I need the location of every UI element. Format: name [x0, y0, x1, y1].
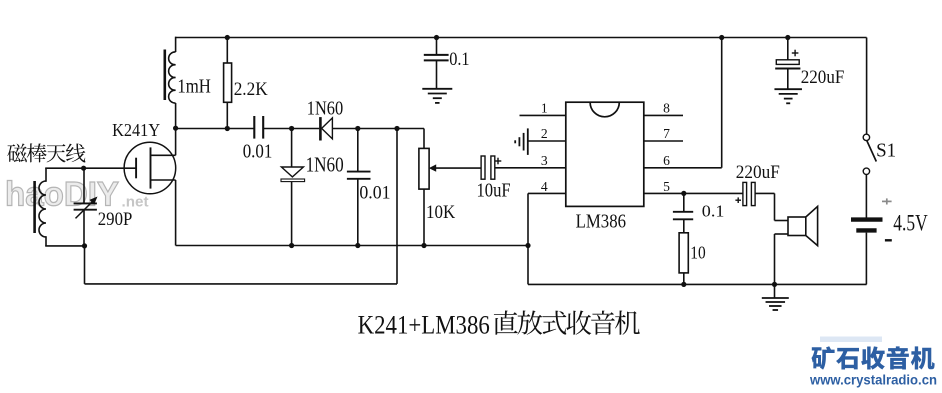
svg-text:10: 10 — [690, 243, 706, 263]
ground speaker — [774, 284, 776, 297]
svg-text:K241Y: K241Y — [112, 120, 160, 140]
svg-text:10uF: 10uF — [477, 180, 511, 202]
minus battery — [885, 239, 892, 241]
svg-text:5: 5 — [663, 179, 670, 194]
svg-text:290P: 290P — [98, 209, 133, 230]
pin 7 lead — [644, 140, 683, 142]
pin 6 lead — [644, 167, 722, 169]
wire AVC return loop — [84, 246, 86, 284]
svg-text:10K: 10K — [426, 202, 455, 223]
wire signal rail (drain node line) — [176, 128, 255, 130]
resistor R 2.2K — [226, 38, 228, 64]
diode D 1N60 series — [319, 117, 322, 140]
capacitor 220uF output — [743, 182, 747, 205]
antenna core bar — [33, 181, 36, 233]
svg-text:0.01: 0.01 — [359, 183, 390, 204]
svg-text:0.1: 0.1 — [449, 50, 469, 70]
node pin5 — [681, 191, 686, 196]
svg-text:7: 7 — [663, 126, 670, 141]
svg-text:2: 2 — [541, 126, 548, 141]
node top rail / 0.1 decoupling — [434, 35, 439, 40]
node detector / shunt diode — [289, 126, 294, 131]
svg-text:2.2K: 2.2K — [234, 79, 268, 100]
pin 4 lead — [528, 192, 566, 194]
wire antenna top to gate — [45, 168, 47, 182]
switch S1 — [866, 38, 868, 135]
ground below 0.1 — [422, 88, 452, 90]
svg-text:www.crystalradio.cn: www.crystalradio.cn — [809, 372, 937, 387]
node 2.2K bottom — [225, 126, 230, 131]
speaker — [788, 217, 806, 236]
pin 5 lead — [644, 192, 743, 194]
pin 8 lead — [644, 114, 683, 116]
capacitor 0.01 shunt — [357, 129, 359, 172]
svg-text:220uF: 220uF — [736, 162, 780, 183]
node top rail / 220uF filter — [785, 35, 790, 40]
svg-text:8: 8 — [663, 101, 670, 116]
plus battery — [882, 200, 892, 202]
antenna coil — [39, 181, 46, 237]
svg-text:4: 4 — [541, 179, 548, 194]
svg-text:1mH: 1mH — [177, 75, 211, 97]
capacitor 0.1 zobel — [683, 193, 685, 211]
node speaker ground — [772, 282, 777, 287]
transistor Q K241Y FET — [124, 142, 176, 194]
svg-text:K241+LM386: K241+LM386 — [358, 310, 490, 340]
node top rail / 2.2K — [225, 35, 230, 40]
svg-text:1N60: 1N60 — [307, 98, 343, 120]
node top rail / pin6 riser — [719, 35, 724, 40]
svg-text:3: 3 — [541, 153, 548, 168]
logo 矿石收音机 — [811, 346, 934, 369]
capacitor 220uF filter — [787, 38, 789, 60]
wire pin3 lead — [495, 167, 566, 169]
wire top power rail — [175, 37, 866, 39]
logo halo artifact — [820, 337, 882, 343]
variable capacitor 290P — [83, 168, 85, 203]
plus 10uF — [495, 160, 502, 162]
svg-text:1: 1 — [541, 101, 548, 116]
wire antenna bottom — [45, 236, 47, 246]
potentiometer 10K — [423, 129, 425, 149]
wire speaker to ground — [775, 233, 789, 235]
wire switch to battery — [865, 175, 867, 218]
node pot bottom — [421, 243, 426, 248]
wire cap to speaker — [755, 192, 774, 194]
svg-text:1N60: 1N60 — [306, 155, 344, 177]
svg-text:220uF: 220uF — [801, 67, 845, 88]
10K wiper arrow — [429, 164, 436, 171]
wire pin6 riser to rail — [721, 38, 723, 168]
svg-text:0.1: 0.1 — [702, 202, 725, 221]
inductor L 1mH — [175, 37, 177, 52]
ground below 220uF filter — [774, 88, 802, 90]
290P arrow — [76, 202, 93, 219]
node antenna bottom — [82, 243, 87, 248]
node shunt diode bottom — [289, 243, 294, 248]
svg-text:0.01: 0.01 — [243, 141, 273, 163]
wire ground bus left — [176, 245, 528, 247]
plus 220uF filter — [792, 52, 799, 54]
node shunt cap bottom — [355, 243, 360, 248]
ground pin2 (rotated) — [527, 128, 529, 155]
node gate / 290P — [81, 166, 86, 171]
svg-text:4.5V: 4.5V — [893, 211, 928, 236]
cjk 磁棒天线 — [7, 143, 85, 162]
resistor 10 zobel — [679, 233, 688, 273]
inductor core bar — [164, 50, 167, 101]
node AVC return — [394, 126, 399, 131]
capacitor 0.1 decoupling top — [436, 38, 438, 55]
diode D 1N60 shunt — [291, 129, 293, 168]
pin 2 lead — [528, 140, 566, 142]
svg-text:LM386: LM386 — [576, 212, 627, 233]
op-amp U LM386 — [566, 102, 644, 206]
wire battery to ground rail — [865, 233, 867, 285]
node shunt cap — [355, 126, 360, 131]
node zobel bottom — [681, 282, 686, 287]
battery 4.5V — [851, 217, 883, 221]
capacitor 10uF electrolytic — [481, 156, 485, 179]
wire ground rail right — [528, 283, 867, 285]
node drain — [173, 126, 178, 131]
plus 220uF output — [735, 199, 741, 201]
node pin4 riser — [525, 243, 530, 248]
svg-text:.net: .net — [122, 194, 149, 211]
title 直放式收音机 — [494, 310, 640, 334]
svg-text:S1: S1 — [876, 139, 896, 161]
svg-text:6: 6 — [663, 153, 670, 168]
pin 1 lead — [520, 114, 566, 116]
svg-text:haoDIY: haoDIY — [5, 176, 119, 214]
capacitor 0.01 coupling — [253, 116, 255, 139]
